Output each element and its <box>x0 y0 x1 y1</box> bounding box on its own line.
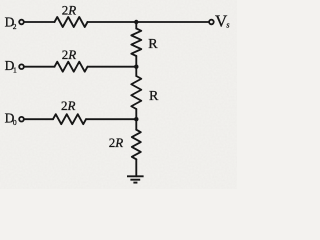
value label 2R (terminating) <box>109 135 124 150</box>
value label R (ladder top) <box>148 37 158 52</box>
wire terminating 2R to ground <box>135 159 137 176</box>
svg-text:2R: 2R <box>62 2 77 17</box>
value label R (ladder bottom) <box>149 89 159 104</box>
wire D0 terminal to resistor <box>24 118 53 120</box>
junction node A <box>134 20 138 24</box>
svg-text:0: 0 <box>13 118 17 127</box>
value label 2R (D2 branch) <box>62 2 77 17</box>
wire node A down to ladder resistor R (top) <box>135 22 137 29</box>
svg-text:1: 1 <box>13 66 17 75</box>
wire D2 terminal to resistor <box>24 21 54 23</box>
label D1 <box>5 58 17 75</box>
junction node B <box>134 65 138 69</box>
terminal D2 (open circle) <box>19 20 24 25</box>
ground symbol <box>127 176 144 182</box>
svg-text:R: R <box>149 89 159 104</box>
svg-text:s: s <box>226 21 229 30</box>
terminal D1 (open circle) <box>19 64 24 69</box>
svg-text:R: R <box>148 37 158 52</box>
wire resistor to node B <box>88 66 137 68</box>
terminal D0 (open circle) <box>19 117 24 122</box>
label D0 <box>5 111 17 128</box>
value label 2R (D1 branch) <box>62 47 77 62</box>
resistor 2R (D0 branch) <box>53 114 86 124</box>
wire node C down to terminating resistor 2R <box>135 119 137 130</box>
wire resistor to node C <box>86 118 136 120</box>
resistor R (ladder, bottom) <box>131 76 141 109</box>
wire ladder R to node C <box>135 109 137 119</box>
svg-text:2R: 2R <box>62 47 77 62</box>
label D2 <box>5 15 17 32</box>
svg-text:2R: 2R <box>61 98 76 113</box>
junction node C <box>134 117 138 121</box>
wire D1 terminal to resistor <box>24 66 54 68</box>
resistor 2R (D1 branch) <box>55 62 88 72</box>
terminal Vs (open circle) <box>209 20 214 25</box>
wire ladder R to node B <box>135 56 137 67</box>
svg-text:2: 2 <box>13 22 17 31</box>
wire node B down to ladder resistor R (bottom) <box>135 67 137 76</box>
wire resistor to node A and on to Vs <box>88 21 209 23</box>
resistor 2R (terminating) <box>132 130 141 160</box>
label Vs (output) <box>215 11 230 30</box>
svg-text:2R: 2R <box>109 135 124 150</box>
value label 2R (D0 branch) <box>61 98 76 113</box>
resistor R (ladder, top) <box>131 29 141 57</box>
resistor 2R (D2 branch) <box>55 17 88 27</box>
